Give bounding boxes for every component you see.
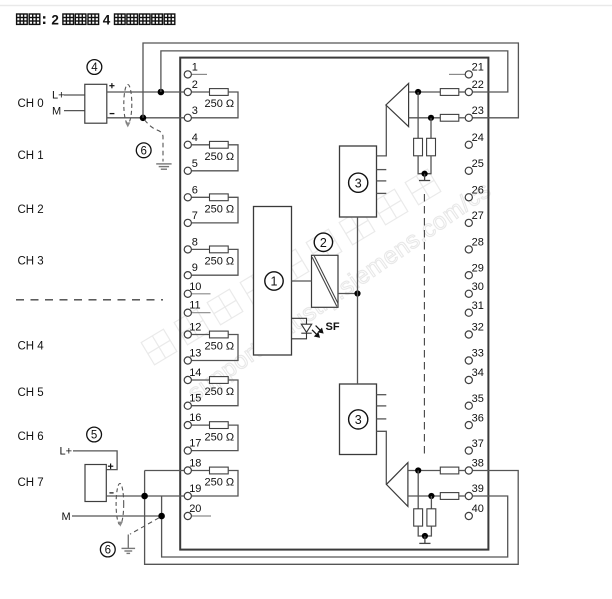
svg-text:250 Ω: 250 Ω xyxy=(205,341,235,353)
terminal 7 xyxy=(184,210,198,227)
wire terminal 18 to measuring resistor xyxy=(192,470,210,472)
wire A1 to resistor R23 xyxy=(409,117,441,119)
wire terminal 8 to measuring resistor xyxy=(192,248,210,250)
wire terminal 6 to measuring resistor xyxy=(192,196,210,198)
wire resistor return to terminal 19 xyxy=(192,471,238,497)
mux bottom stubs xyxy=(377,395,387,419)
svg-text:14: 14 xyxy=(189,367,201,379)
wire resistor return to terminal 3 xyxy=(192,92,238,118)
svg-text:28: 28 xyxy=(472,237,484,249)
label circle 5 (2-wire transducer) xyxy=(87,427,102,442)
LED emission arrows xyxy=(312,326,323,337)
wire resistor return to terminal 13 xyxy=(192,335,238,361)
svg-text:40: 40 xyxy=(472,503,484,515)
svg-text:32: 32 xyxy=(472,322,484,334)
svg-text:33: 33 xyxy=(472,348,484,360)
terminal 14 xyxy=(184,367,201,384)
svg-text:CH 7: CH 7 xyxy=(18,477,44,489)
svg-text:27: 27 xyxy=(472,210,484,222)
wire to divider resistor R40 xyxy=(417,471,419,509)
wire to divider resistor R25 xyxy=(430,118,432,139)
wire T1 minus output to terminal 3 xyxy=(107,117,184,119)
plus polarity mark T2 xyxy=(108,464,113,469)
svg-text:1: 1 xyxy=(271,275,278,289)
wire R38 to terminal 38 xyxy=(459,470,465,472)
svg-text:30: 30 xyxy=(472,281,484,293)
terminal 17 xyxy=(184,438,201,455)
wire R24/R25 join xyxy=(418,156,431,174)
svg-text:39: 39 xyxy=(472,483,484,495)
terminal 13 xyxy=(184,348,201,365)
node junction CH0 plus / loop to terminal 22 xyxy=(158,89,165,96)
shield earth dashed lead CH7 xyxy=(130,518,159,534)
terminal 2 xyxy=(184,79,198,96)
wire R39 to terminal 39 xyxy=(459,495,465,497)
wire stub terminal 1 xyxy=(192,73,207,75)
wire U1 to U2 xyxy=(292,280,312,282)
terminal 16 xyxy=(184,412,201,429)
svg-text:M: M xyxy=(52,106,61,118)
svg-text:25: 25 xyxy=(472,158,484,170)
svg-text:3: 3 xyxy=(355,413,362,427)
wire terminal 14 to measuring resistor xyxy=(192,379,210,381)
resistor 250 ohm (terminals 4-5) xyxy=(210,141,229,148)
wire A2 to resistor R38 xyxy=(408,470,440,472)
svg-text:CH 5: CH 5 xyxy=(18,387,44,399)
node U2 output junction xyxy=(354,290,360,296)
label circle 6 (shield grounding, bottom) xyxy=(100,542,115,557)
svg-text:10: 10 xyxy=(189,281,201,293)
svg-text:4: 4 xyxy=(192,132,198,144)
terminal 22 xyxy=(465,79,484,95)
svg-text:CH 3: CH 3 xyxy=(18,256,44,268)
resistor R39 xyxy=(440,493,459,500)
wire resistor return to terminal 17 xyxy=(192,425,238,451)
svg-text:CH 6: CH 6 xyxy=(18,431,44,443)
wire U2 to mux bus xyxy=(338,293,358,295)
svg-text:7: 7 xyxy=(192,210,198,222)
svg-text:CH 0: CH 0 xyxy=(18,98,44,110)
multiplexer block U3 (top) xyxy=(340,146,377,217)
terminal 32 xyxy=(465,322,484,338)
wire loop CH0 plus to terminal 22 (inner top loop) xyxy=(161,51,508,92)
terminal 24 xyxy=(465,132,484,148)
svg-text:4: 4 xyxy=(103,12,111,27)
svg-text:6: 6 xyxy=(192,184,198,196)
wire R40/R41 join xyxy=(418,526,431,536)
svg-text:17: 17 xyxy=(189,438,201,450)
resistor 250 ohm (terminals 18-19) xyxy=(210,467,229,474)
svg-text:8: 8 xyxy=(192,236,198,248)
svg-text:16: 16 xyxy=(189,412,201,424)
channel group separator dashed line xyxy=(16,299,163,301)
label circle 6 (shield grounding, top) xyxy=(136,143,151,158)
terminal 28 xyxy=(465,237,484,253)
terminal 27 xyxy=(465,210,484,226)
resistor R25 (vertical) xyxy=(427,138,436,156)
wire mux bottom to amplifier A2 xyxy=(377,431,387,484)
terminal 39 xyxy=(465,483,484,499)
wire R23 to terminal 23 xyxy=(459,117,465,119)
terminal 34 xyxy=(465,367,484,383)
svg-text:250 Ω: 250 Ω xyxy=(205,256,235,268)
terminal 35 xyxy=(465,393,484,409)
node junction A2 out upper xyxy=(415,467,421,473)
label circle 2 (isolation) xyxy=(314,233,332,251)
svg-text:29: 29 xyxy=(472,262,484,274)
svg-text:21: 21 xyxy=(472,62,484,74)
svg-text:L+: L+ xyxy=(60,446,73,458)
plus polarity mark T1 xyxy=(109,83,114,88)
terminal 1 xyxy=(184,61,198,78)
wire T2 minus to terminal 19 xyxy=(106,495,184,497)
transducer T1 box (CH0 sensor) xyxy=(85,84,107,123)
wire loop CH0 minus to terminal 23 (outer top loop) xyxy=(143,43,518,118)
mux top stubs xyxy=(377,170,387,194)
node junction A1 out upper xyxy=(415,89,421,95)
node junction CH0 minus / loop to terminal 23 xyxy=(140,115,147,122)
wire A1 to resistor R22 xyxy=(409,91,441,93)
svg-text:CH 1: CH 1 xyxy=(18,150,44,162)
wire terminal 4 to measuring resistor xyxy=(192,144,210,146)
resistor 250 ohm (terminals 8-9) xyxy=(210,246,229,253)
wire T1 plus output to terminal 2 xyxy=(107,91,184,93)
cable shield symbol CH0 xyxy=(124,85,132,128)
cable shield symbol CH7 xyxy=(116,484,124,527)
svg-text:250 Ω: 250 Ω xyxy=(205,477,235,489)
wire mux bus vertical xyxy=(357,217,359,384)
wire resistor return to terminal 15 xyxy=(192,380,238,406)
svg-text:CH 4: CH 4 xyxy=(18,341,45,353)
wire A2 to resistor R39 xyxy=(408,495,440,497)
svg-text:22: 22 xyxy=(472,79,484,91)
svg-text:18: 18 xyxy=(189,458,201,470)
wire stub terminal 10 xyxy=(192,293,211,295)
svg-text:37: 37 xyxy=(472,438,484,450)
resistor R24 (vertical) xyxy=(414,138,423,156)
svg-text:13: 13 xyxy=(189,348,201,360)
svg-text:2: 2 xyxy=(192,79,198,91)
resistor 250 ohm (terminals 14-15) xyxy=(210,377,229,384)
node junction divider ground (bottom) xyxy=(422,533,428,539)
terminal 8 xyxy=(184,236,198,253)
wire stub terminal 11 xyxy=(192,312,211,314)
resistor R22 xyxy=(440,89,459,96)
svg-text:26: 26 xyxy=(472,185,484,197)
minus polarity mark T2 xyxy=(109,492,113,494)
svg-text:3: 3 xyxy=(192,105,198,117)
ground stem CH7 xyxy=(127,535,129,549)
terminal 37 xyxy=(465,438,484,454)
svg-text:15: 15 xyxy=(189,393,201,405)
svg-text:250 Ω: 250 Ω xyxy=(205,431,235,443)
terminal 21 xyxy=(465,62,484,78)
wire terminal 18 feed xyxy=(145,470,185,472)
svg-text:23: 23 xyxy=(472,105,484,117)
terminal 20 xyxy=(184,503,201,520)
svg-text:250 Ω: 250 Ω xyxy=(205,386,235,398)
ground symbol CH7 shield xyxy=(122,548,136,553)
resistor R38 xyxy=(440,467,459,474)
terminal 30 xyxy=(465,281,484,297)
resistor 250 ohm (terminals 6-7) xyxy=(210,194,229,201)
svg-text:19: 19 xyxy=(189,483,201,495)
svg-text:34: 34 xyxy=(472,367,484,379)
svg-text:2: 2 xyxy=(320,236,327,250)
terminal 26 xyxy=(465,185,484,201)
wire L+ to transducer T2 plus xyxy=(73,451,117,470)
svg-text:2: 2 xyxy=(51,12,59,27)
terminal 40 xyxy=(465,503,484,519)
wire resistor return to terminal 7 xyxy=(192,197,238,223)
wire stub terminal 21 xyxy=(449,73,465,75)
svg-text:M: M xyxy=(62,511,71,523)
wire terminal 2 to measuring resistor xyxy=(192,91,210,93)
svg-text:6: 6 xyxy=(140,146,146,158)
resistor R23 xyxy=(440,114,459,121)
terminal 9 xyxy=(184,262,198,279)
terminal 23 xyxy=(465,105,484,121)
svg-text:12: 12 xyxy=(189,322,201,334)
svg-text:CH 2: CH 2 xyxy=(18,204,44,216)
wire stub terminal 20 xyxy=(192,515,211,517)
node junction CH7 minus xyxy=(141,493,148,500)
terminal 36 xyxy=(465,412,484,428)
page top divider xyxy=(0,5,612,7)
terminal 25 xyxy=(465,158,484,174)
svg-text:SF: SF xyxy=(326,321,340,333)
wire terminal 16 to measuring resistor xyxy=(192,424,210,426)
svg-text:31: 31 xyxy=(472,300,484,312)
terminal 3 xyxy=(184,105,198,122)
ADC block U1 xyxy=(254,207,292,356)
title: 接线：2 线制和 4 线制传感器 (drawn glyph substitutes) xyxy=(17,14,175,24)
resistor 250 ohm (terminals 2-3) xyxy=(210,89,229,96)
amplifier A2 (bottom) xyxy=(386,463,408,507)
multiplexer block U3 (bottom) xyxy=(340,384,377,455)
svg-text:250 Ω: 250 Ω xyxy=(205,98,235,110)
svg-text:250 Ω: 250 Ω xyxy=(205,151,235,163)
terminal 15 xyxy=(184,393,201,410)
terminal 29 xyxy=(465,262,484,278)
internal reference dashed bus xyxy=(423,194,425,455)
ground (internal, bottom) xyxy=(419,536,430,543)
module box (terminal block outline) xyxy=(180,58,488,550)
node junction CH7 M xyxy=(158,513,165,520)
resistor 250 ohm (terminals 12-13) xyxy=(210,331,229,338)
terminal 31 xyxy=(465,300,484,316)
terminal 12 xyxy=(184,322,201,339)
svg-text:20: 20 xyxy=(189,503,201,515)
terminal 18 xyxy=(184,458,201,475)
wire loop CH7 M to terminal 39 (inner bottom loop) xyxy=(162,496,508,557)
terminal 19 xyxy=(184,483,201,500)
wire R22 to terminal 22 xyxy=(459,91,465,93)
svg-text:9: 9 xyxy=(192,262,198,274)
transducer T2 box (CH7 sensor) xyxy=(85,465,106,502)
svg-text:5: 5 xyxy=(192,158,198,170)
isolation block U2 xyxy=(312,255,339,307)
wire resistor return to terminal 5 xyxy=(192,145,238,171)
svg-text:35: 35 xyxy=(472,393,484,405)
svg-text:4: 4 xyxy=(91,62,98,74)
terminal 4 xyxy=(184,132,198,149)
wire terminal 12 to measuring resistor xyxy=(192,334,210,336)
wire M to junction xyxy=(72,515,162,517)
SF LED circuit xyxy=(292,318,312,339)
wire resistor return to terminal 9 xyxy=(192,249,238,275)
amplifier A1 (top) xyxy=(386,83,409,126)
svg-text:5: 5 xyxy=(91,430,97,442)
label circle 4 (4-wire transducer) xyxy=(87,60,102,75)
terminal 6 xyxy=(184,184,198,201)
wire L+ to transducer T1 xyxy=(64,94,85,96)
terminal 33 xyxy=(465,348,484,364)
watermark chinese line xyxy=(141,329,177,365)
resistor R40 (vertical) xyxy=(414,509,423,526)
svg-text:3: 3 xyxy=(355,176,362,190)
svg-text:L+: L+ xyxy=(52,90,65,102)
terminal 38 xyxy=(465,458,484,474)
svg-text:36: 36 xyxy=(472,412,484,424)
minus polarity mark T1 xyxy=(110,113,115,115)
svg-text:38: 38 xyxy=(472,458,484,470)
svg-text:6: 6 xyxy=(105,545,111,557)
svg-text:250 Ω: 250 Ω xyxy=(205,204,235,216)
wire to divider resistor R24 xyxy=(417,92,419,138)
node junction A1 out lower xyxy=(428,115,434,121)
wire M to transducer T1 xyxy=(64,110,85,112)
terminal 10 xyxy=(184,281,201,298)
resistor 250 ohm (terminals 16-17) xyxy=(210,422,229,429)
shield earth dashed lead CH0 xyxy=(145,120,164,162)
wire loop CH7 minus to terminal 38 (outer bottom loop) xyxy=(145,471,519,565)
ground (internal, top) xyxy=(419,174,430,181)
terminal 5 xyxy=(184,158,198,175)
wire mux top to amplifier A1 xyxy=(377,105,387,156)
svg-text:1: 1 xyxy=(192,61,198,73)
wire to divider resistor R41 xyxy=(430,496,432,509)
svg-text:24: 24 xyxy=(472,132,484,144)
node junction divider ground (top) xyxy=(422,171,428,177)
resistor R41 (vertical) xyxy=(427,509,436,526)
ground symbol CH0 shield xyxy=(156,164,171,169)
svg-text:11: 11 xyxy=(189,300,200,312)
node junction A2 out lower xyxy=(428,493,434,499)
terminal 11 xyxy=(184,300,200,317)
